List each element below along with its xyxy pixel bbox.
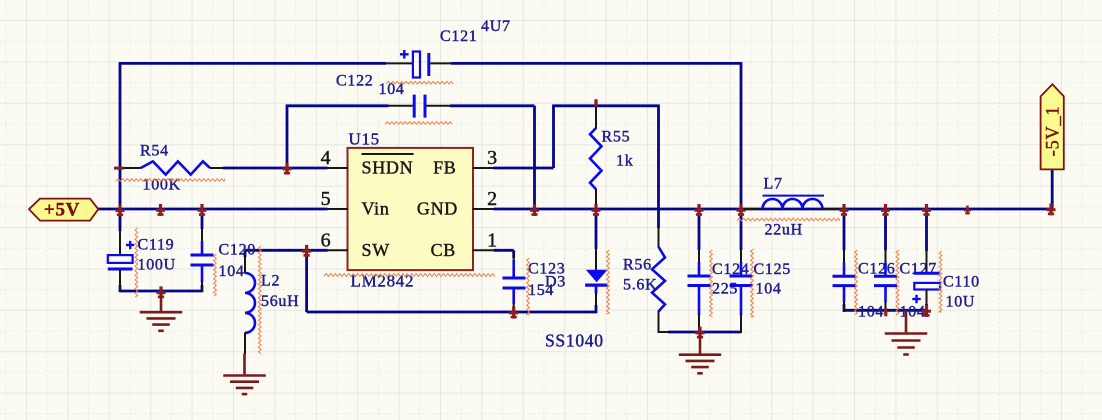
wire FB pin 3 to corner: [494, 167, 554, 170]
diode D3 SS1040: [595, 248, 597, 271]
U15 pin 4 SHDN: [327, 167, 348, 169]
U15 pin 6 SW: [327, 249, 348, 251]
ground (output filter 2): [905, 310, 908, 332]
junction rail C126: [842, 204, 845, 216]
wire +5V riser (top-left corner): [119, 63, 122, 209]
svg-text:4U7: 4U7: [481, 18, 511, 35]
pin-end tick C127 bottom: [884, 308, 887, 316]
svg-text:56uH: 56uH: [261, 293, 299, 310]
svg-text:C125: C125: [754, 261, 791, 278]
svg-text:SW: SW: [362, 240, 390, 260]
capacitor C121 4U7: [386, 62, 413, 64]
capacitor C127 104: [884, 209, 887, 250]
wire C122 left: [286, 104, 389, 107]
error squiggle L7: [737, 218, 840, 221]
junction bottom ground node: [698, 327, 701, 339]
svg-text:100K: 100K: [143, 177, 181, 194]
error squiggle C125: [751, 249, 754, 317]
capacitor C110 10U: [925, 209, 928, 251]
wire SW bottom run: [307, 311, 596, 314]
svg-text:6: 6: [321, 229, 332, 251]
svg-text:CB: CB: [431, 240, 456, 260]
capacitor C119 100U: [119, 209, 122, 231]
svg-text:104: 104: [756, 281, 782, 298]
svg-text:R54: R54: [140, 143, 169, 160]
wire top-right corner down to rail: [740, 63, 743, 209]
svg-text:SS1040: SS1040: [545, 331, 604, 351]
junction rail x534: [533, 204, 536, 216]
svg-text:104: 104: [858, 304, 884, 321]
capacitor C124 225: [698, 209, 701, 250]
svg-text:10U: 10U: [946, 294, 976, 311]
svg-text:1: 1: [487, 229, 498, 251]
svg-text:3: 3: [487, 147, 498, 169]
wire SW pin 6 run: [245, 249, 328, 252]
wire FB riser: [552, 106, 555, 168]
svg-text:104: 104: [219, 263, 245, 280]
error squiggle C119: [135, 228, 138, 297]
wire C122 left riser: [286, 106, 289, 168]
error squiggle under C122: [385, 122, 452, 125]
capacitor C120 104: [201, 209, 204, 229]
wire C122 right to corner: [450, 104, 535, 107]
svg-text:4: 4: [321, 147, 332, 169]
error squiggle D3: [607, 250, 610, 314]
svg-text:104: 104: [900, 304, 926, 321]
error squiggle under R54: [116, 179, 225, 182]
capacitor C126 104: [843, 209, 846, 250]
wire R54 right to node: [223, 167, 287, 170]
junction rail x967: [966, 206, 968, 215]
capacitor C122 104: [389, 105, 413, 107]
svg-text:154: 154: [528, 282, 554, 299]
svg-text:C127: C127: [900, 261, 937, 278]
svg-text:C121: C121: [440, 28, 477, 45]
svg-text:L7: L7: [764, 176, 783, 193]
wire FB top run: [552, 104, 660, 107]
resistor R54 100K: [119, 167, 141, 169]
svg-text:U15: U15: [349, 130, 380, 149]
wire R56 bottom run: [668, 331, 741, 334]
junction rail -5V_1: [1049, 203, 1052, 215]
svg-text:5: 5: [321, 188, 332, 210]
ground (input filter): [160, 292, 163, 312]
wire diode bottom stub: [595, 305, 598, 313]
svg-text:FB: FB: [433, 158, 456, 178]
wire node to SHDN pin 4: [287, 167, 328, 170]
svg-text:C122: C122: [336, 73, 373, 90]
wire FB top to R56: [657, 106, 660, 228]
svg-text:+5V: +5V: [44, 200, 80, 221]
junction ground (input filter): [159, 286, 162, 298]
svg-text:C110: C110: [943, 274, 980, 291]
error squiggle C127: [896, 250, 899, 315]
error squiggle C124: [710, 250, 713, 317]
svg-text:100U: 100U: [138, 257, 176, 274]
svg-text:2: 2: [487, 188, 498, 210]
svg-text:L2: L2: [261, 273, 280, 290]
junction rail C125/C121: [739, 204, 742, 216]
pin-end tick R54 left: [114, 167, 124, 170]
junction rail C120: [200, 204, 203, 216]
U15 pin 1 CB: [473, 249, 494, 251]
power port -5V_1: [1041, 84, 1064, 169]
svg-text:SHDN: SHDN: [362, 158, 414, 178]
wire diode top: [595, 209, 598, 249]
capacitor C125 104: [740, 209, 743, 250]
pin-end tick R55 top: [594, 99, 597, 107]
ground (L2): [243, 353, 246, 374]
svg-text:C123: C123: [528, 261, 565, 278]
wire C121 to top-right corner: [451, 62, 742, 65]
svg-text:-5V_1: -5V_1: [1044, 106, 1064, 157]
svg-text:Vin: Vin: [362, 199, 390, 219]
U15 pin 5 Vin: [327, 208, 348, 210]
wire -5V_1 drop: [1051, 169, 1054, 209]
power port +5V: [29, 199, 98, 221]
wire +5V rail: [98, 208, 328, 211]
inductor L2 56uH: [244, 250, 247, 257]
svg-text:22uH: 22uH: [765, 222, 803, 239]
wire SW node drop: [305, 250, 308, 312]
wire C122 corner down to rail: [533, 106, 536, 209]
error squiggle C126: [855, 250, 858, 315]
svg-text:C119: C119: [138, 237, 175, 254]
resistor R55 1k: [595, 106, 597, 129]
junction rail C110: [925, 204, 928, 216]
IC U15 LM2842: [348, 148, 474, 270]
U15 pin 2 GND: [473, 208, 494, 210]
svg-text:104: 104: [379, 81, 405, 98]
wire C119 bottom run: [120, 290, 202, 293]
svg-text:1k: 1k: [616, 153, 633, 170]
svg-text:225: 225: [712, 281, 738, 298]
resistor R56 5.6K: [658, 228, 660, 248]
svg-text:C120: C120: [219, 242, 256, 259]
junction bottom C123: [512, 307, 515, 319]
junction SW node: [305, 245, 308, 257]
junction rail C127: [884, 204, 887, 216]
wire top net to C121: [119, 62, 386, 65]
wire GND rail: [494, 208, 1053, 211]
error squiggle C120: [214, 254, 217, 296]
junction node R54/C122/SHDN: [285, 163, 288, 175]
svg-text:5.6K: 5.6K: [623, 277, 657, 294]
error squiggle L2: [258, 246, 261, 354]
junction +5V riser/rail: [118, 204, 121, 216]
junction rail R55/D3: [594, 204, 597, 216]
svg-text:LM2842: LM2842: [351, 272, 415, 291]
junction rail x161: [159, 204, 162, 216]
error squiggle C110: [939, 251, 942, 312]
ground (output filter 1): [699, 332, 702, 354]
svg-text:GND: GND: [417, 199, 458, 219]
junction rail C124: [697, 204, 700, 216]
junction bottom C110: [925, 305, 928, 317]
svg-text:R55: R55: [602, 129, 631, 146]
error squiggle C123: [527, 258, 530, 315]
wire CB pin 1 to corner: [494, 249, 514, 252]
capacitor C123 154: [513, 251, 515, 261]
svg-text:R56: R56: [623, 257, 652, 274]
error squiggle under C121: [386, 81, 453, 84]
wire C126 group bottom run: [844, 309, 927, 312]
inductor L7 22uH: [744, 208, 763, 210]
U15 pin 3 FB: [473, 167, 494, 169]
error squiggle under U15: [324, 274, 495, 277]
